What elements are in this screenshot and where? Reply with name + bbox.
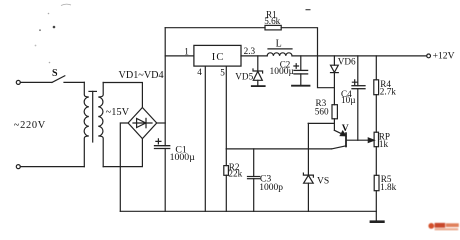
svg-text:2.3: 2.3 [244,46,256,56]
svg-text:1000p: 1000p [259,183,283,193]
wire: secondary bottom to bridge [103,139,142,167]
wire: IC pin 1 [165,55,194,57]
svg-text:IC: IC [212,52,225,63]
C1 polarity plus [156,139,161,144]
wire: bottom terminal to primary [20,166,84,168]
transformer T secondary winding [98,83,103,167]
terminal: AC input top [16,80,20,84]
wire: top rail left segment [165,27,265,29]
wire: bridge positive (right vertex) to main vertical [157,122,166,124]
svg-text:VD5: VD5 [235,71,253,81]
capacitor C3 [253,149,255,177]
scan noise specks [35,4,311,63]
diode VD6 [333,56,335,65]
wire: RP to R5 [375,147,377,176]
resistor R4 [374,80,379,95]
wire: right divider column from +12V rail [375,56,377,80]
wire: IC pin 4 to ground rail [204,66,206,211]
capacitor C2 [300,56,302,71]
wire: R5 to ground [375,191,377,222]
terminal: AC input bottom [16,165,20,169]
transistor V collector lead [332,146,347,149]
svg-text:L: L [276,39,282,50]
svg-text:5.6k: 5.6k [264,16,280,26]
wire: R4 to RP [375,95,377,133]
transistor V base wire to RP wiper [347,139,369,141]
svg-text:2.7k: 2.7k [380,87,396,97]
svg-text:VD1~VD4: VD1~VD4 [119,70,164,81]
svg-text:560: 560 [315,107,329,117]
svg-text:VS: VS [317,175,329,186]
svg-text:~220V: ~220V [14,120,46,131]
RP wiper arrow [368,138,374,142]
wire: main left vertical (rectifier output bus) [164,28,166,146]
svg-text:+12V: +12V [433,51,455,62]
resistor R1 [265,25,281,30]
svg-text:~15V: ~15V [106,107,130,118]
op-amp/regulator IC U1 box [194,45,241,66]
C2 ground bar [292,85,310,87]
transistor V (PNP) emitter lead with arrow [334,130,344,135]
wire: feedback node horizontal (pin5/R2/C3 to collector) [226,148,331,150]
inductor L [268,48,292,50]
resistor R5 [374,175,379,190]
wire: R3 to transistor emitter [333,119,335,131]
switch S [52,76,65,83]
VD5 ground bar [252,85,265,87]
wire: IC pin 2.3 output [241,55,267,57]
svg-text:10µ: 10µ [341,95,355,105]
wire: bottom ground rail [120,210,376,212]
svg-text:22k: 22k [228,169,242,179]
transformer core [89,90,96,92]
wire: bridge negative (left vertex) down to ground rail [120,123,128,211]
wire: secondary top to bridge [103,83,142,108]
svg-text:1: 1 [184,46,189,56]
resistor R2 [225,149,227,166]
wire: switch to transformer primary [64,81,84,83]
svg-text:VD6: VD6 [338,57,356,67]
zener diode VS [307,123,309,175]
svg-text:V: V [342,123,349,134]
wire: IC pin 5 down to feedback node [225,66,227,149]
wire: top terminal to switch [20,81,52,83]
wire: top rail right segment and drop to VD6 cathode [281,28,334,88]
potentiometer RP [374,132,378,147]
C4 polarity plus [352,80,357,85]
C2 polarity plus [294,64,299,69]
transistor V base bar [345,133,347,146]
diode VD5 (zener) [257,56,259,71]
svg-text:1000µ: 1000µ [170,152,196,163]
svg-text:1.8k: 1.8k [380,182,396,192]
transformer T primary winding [84,82,89,166]
ground [371,220,384,223]
capacitor C1 plates [155,145,170,147]
svg-text:5: 5 [220,68,225,78]
watermark logo [428,223,458,230]
bridge inner diode [133,122,152,124]
svg-text:4: 4 [197,67,202,77]
resistor R3 [332,105,337,119]
svg-text:1k: 1k [379,139,389,149]
bridge rectifier VD1~VD4 diamond [128,108,157,139]
svg-text:1000µ: 1000µ [270,67,295,77]
wire: +12V output rail [292,55,427,57]
capacitor C4 [357,56,359,86]
terminal: +12V output [427,54,431,58]
wire: VS jog to R3/emitter node [308,122,334,124]
svg-text:S: S [52,68,58,79]
